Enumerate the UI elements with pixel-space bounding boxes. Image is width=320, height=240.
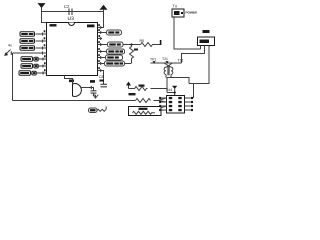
svg-text:U4: U4 xyxy=(168,88,173,92)
power arrow down into U4 xyxy=(172,86,177,96)
wire U3 to J5 xyxy=(98,57,106,59)
wire S4 to U3 xyxy=(38,58,47,60)
wire T1 secondary bottom rail xyxy=(167,78,189,93)
pin number xyxy=(44,55,46,57)
terminal bar xyxy=(160,40,162,45)
connector J2 (right box row y32) xyxy=(107,30,122,35)
wire S6 to U3 xyxy=(36,72,47,74)
stub pin row y38 xyxy=(98,38,103,40)
wire U3 to speaker xyxy=(65,76,73,85)
battery BT1 (top right box) xyxy=(172,4,184,17)
svg-text:POWER: POWER xyxy=(186,11,198,15)
wire U3 to J3 and on to R5 xyxy=(98,44,141,46)
wire CN1 pin1 xyxy=(200,46,202,50)
svg-text:Tn: Tn xyxy=(173,4,178,9)
power VCC1 (top-left down-triangle) xyxy=(38,3,46,8)
wire S1 to U3 xyxy=(36,33,47,35)
wire T1 primary top rail xyxy=(151,62,182,64)
wire R11 box to U4 pins xyxy=(161,106,167,110)
pin number xyxy=(99,35,101,37)
junction node U4 top xyxy=(174,91,176,93)
pin tick xyxy=(42,40,44,43)
test point arrow TP2 xyxy=(166,61,169,63)
microphone MK1 (bottom floating) xyxy=(89,107,107,113)
op-amp U4 body xyxy=(167,96,185,114)
op-amp U3 main IC body xyxy=(47,23,98,76)
switch S6 (left box row6) xyxy=(19,71,36,75)
wire fan to U4 left pins xyxy=(159,98,167,102)
junction node at R9 top xyxy=(130,43,132,45)
resistor R5 xyxy=(141,43,154,47)
wire U3 to J2 xyxy=(98,32,107,34)
pin tick xyxy=(100,31,102,34)
svg-text:C2: C2 xyxy=(64,4,70,9)
label R9 xyxy=(134,49,138,51)
wire R12 to U4 xyxy=(151,89,175,93)
pin number xyxy=(44,30,46,32)
pin tick xyxy=(100,62,102,65)
connector J6 (right box row y63) xyxy=(105,61,125,66)
wire CN1 pin3 down right side xyxy=(189,46,209,84)
pin number xyxy=(44,37,46,39)
wire bottom ground run xyxy=(13,100,136,102)
svg-text:4x: 4x xyxy=(8,44,12,48)
speaker LS1 xyxy=(73,84,82,97)
resistor R9 (vertical) xyxy=(130,45,134,64)
wire VCC2 stem to U3 pin xyxy=(98,10,104,28)
connector CN1 xyxy=(198,37,215,46)
wire S3 to U3 xyxy=(36,47,47,49)
pin tick xyxy=(42,47,44,50)
switch S3 (left box row3) xyxy=(20,46,35,50)
pin tick xyxy=(100,43,102,46)
pin tick xyxy=(42,65,44,68)
pin tick pin1 right xyxy=(100,26,102,29)
pin tick xyxy=(42,58,44,61)
capacitor C9 plates xyxy=(91,91,97,93)
pin number xyxy=(44,44,46,46)
wire top power rail xyxy=(42,11,104,13)
svg-text:U3: U3 xyxy=(68,16,75,22)
pin tick xyxy=(42,33,44,36)
svg-text:C8: C8 xyxy=(99,75,104,79)
pin number xyxy=(44,69,46,71)
label LS1 xyxy=(69,80,74,83)
pin tick xyxy=(100,37,102,40)
capacitor C8 plates xyxy=(101,84,108,87)
wire R5 to terminal xyxy=(154,44,161,46)
wire speaker to C9 xyxy=(81,88,94,91)
U4 right pin stubs xyxy=(185,97,193,111)
wire input down left side xyxy=(12,53,14,101)
connector J3 (right box row y44) xyxy=(108,42,124,47)
wire S5 to U3 xyxy=(38,65,47,67)
connector J4 (right box row y51) xyxy=(107,49,125,54)
wire R10 to U4 pins xyxy=(154,100,159,102)
connector J5 (right box row y57) xyxy=(106,55,123,60)
input probe arrow xyxy=(4,50,11,56)
wire U3 to J6 and on to R9 bottom xyxy=(98,63,132,65)
resistor R10 on bottom run xyxy=(136,99,151,103)
pin tick xyxy=(42,72,44,75)
label C9 xyxy=(90,80,95,83)
U4 left pin stubs xyxy=(159,97,166,111)
wire CN1 pin3 rail to U4 right pin xyxy=(193,84,195,99)
wire U3 pin to C8 xyxy=(98,71,104,85)
switch S4 (left box row4) xyxy=(21,57,38,61)
pin name block top-left inside U3 xyxy=(50,24,57,26)
pin name block top-right inside U3 xyxy=(87,25,95,28)
pin tick xyxy=(100,56,102,59)
label R12 xyxy=(139,85,145,87)
switch S1 (left box row1) xyxy=(20,32,35,36)
transformer T1 xyxy=(164,63,173,78)
pin tick xyxy=(100,50,102,53)
wire BT1 down and to CN1 xyxy=(174,18,201,50)
pin tick at C9 xyxy=(90,86,92,89)
power VCC2 (top-right up-arrow) xyxy=(100,5,108,10)
pin tick xyxy=(42,52,44,55)
svg-text:T21: T21 xyxy=(162,57,168,61)
test point arrow TP1 xyxy=(153,61,156,63)
svg-text:T31: T31 xyxy=(178,59,184,63)
pin numbers right side xyxy=(98,24,100,69)
wire S2 to U3 xyxy=(36,40,47,42)
switch S5 (left box row5) xyxy=(21,64,38,68)
ground arrow below C9 xyxy=(93,93,98,98)
resistor R12 xyxy=(129,87,148,91)
pin tick xyxy=(100,69,102,72)
pin number xyxy=(44,62,46,64)
label CN1 xyxy=(203,30,210,33)
wire U3 to J4 xyxy=(98,51,107,53)
wire CN1 pin2 to T1 top xyxy=(182,46,205,64)
capacitor C2 on rail xyxy=(64,4,72,15)
label R10 xyxy=(129,93,136,95)
switch S2 (left box row2) xyxy=(20,39,35,43)
power arrow VCC3 (mid-right) xyxy=(126,82,131,89)
wire input row to U3 xyxy=(13,52,47,54)
resistor box R11 xyxy=(129,107,162,116)
wire VCC1 stem down to U3 xyxy=(42,8,48,23)
